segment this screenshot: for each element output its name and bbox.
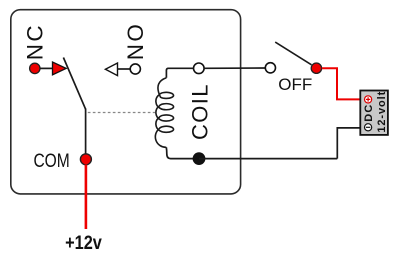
svg-text:+12v: +12v xyxy=(65,232,102,253)
OFF switch arm (open) xyxy=(275,42,311,65)
svg-text:COIL: COIL xyxy=(187,83,212,140)
svg-text:OFF: OFF xyxy=(278,75,312,94)
wire coil top to switch xyxy=(204,67,266,69)
coil top terminal circle xyxy=(194,63,205,74)
wire coil top xyxy=(166,68,193,77)
mechanical link (dashed) xyxy=(88,112,155,114)
svg-text:NC: NC xyxy=(23,23,48,60)
COM terminal dot xyxy=(80,154,91,165)
wire NC dot to contact xyxy=(40,67,53,69)
relay body outline xyxy=(11,10,241,194)
coil L1 xyxy=(155,78,173,148)
wire coil dot to battery minus leg xyxy=(199,158,337,160)
svg-text:12-volt: 12-volt xyxy=(376,91,388,133)
NO contact arrow xyxy=(105,63,117,76)
svg-text:DC: DC xyxy=(363,104,375,122)
black wire battery minus to coil xyxy=(337,128,360,159)
wire NO arrow to terminal xyxy=(118,68,131,70)
svg-text:COM: COM xyxy=(33,150,69,172)
switch arm xyxy=(63,58,85,110)
red wire switch to battery plus xyxy=(322,68,360,99)
OFF switch left terminal xyxy=(265,63,275,73)
battery minus symbol xyxy=(365,124,372,131)
NC terminal dot xyxy=(30,63,40,73)
wire arm to COM xyxy=(85,109,87,159)
battery plus symbol xyxy=(365,96,372,103)
svg-text:NO: NO xyxy=(123,22,148,61)
OFF switch right terminal dot xyxy=(311,63,321,73)
coil bottom junction dot xyxy=(193,153,205,165)
red wire COM to +12v xyxy=(85,165,88,230)
battery body xyxy=(360,91,388,135)
NO terminal circle xyxy=(130,64,140,74)
NC contact arrow xyxy=(53,62,67,75)
wire coil bottom xyxy=(166,147,193,158)
